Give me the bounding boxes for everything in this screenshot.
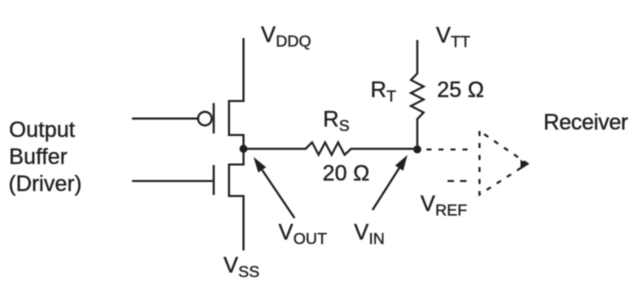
svg-text:Receiver: Receiver	[544, 110, 628, 135]
svg-text:20 Ω: 20 Ω	[323, 161, 370, 186]
svg-text:(Driver): (Driver)	[9, 171, 82, 196]
svg-text:Output: Output	[9, 117, 75, 142]
svg-text:25 Ω: 25 Ω	[437, 77, 484, 102]
svg-text:Buffer: Buffer	[9, 144, 67, 169]
